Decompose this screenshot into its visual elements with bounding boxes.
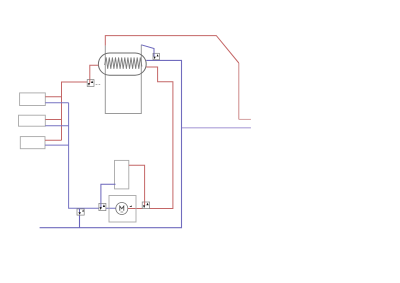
wire: radiator 1 red stub [45,96,61,98]
wire: radiator 2 blue stub [45,125,68,127]
valve V5 (boiler supply valve) [142,202,149,209]
wire: radiator 3 red stub [45,139,62,141]
valve V2 (tank DHW valve) [153,53,159,59]
tiny label dashes next to V1 [96,84,101,86]
wire: red stub at expansion [239,118,251,120]
wire: blue line from expansion area, horizontal y=127.8 [182,127,251,129]
wire: red coil supply left side of tank [90,65,99,79]
radiator 1 [20,93,46,106]
valve V4 (boiler return valve) [99,203,106,210]
boiler B1 [115,160,129,189]
buffer tank under-rectangle (open top) [105,45,141,114]
wire: radiator 2 red stub [45,119,61,121]
wire: blue stub from bottom line up through valve V3 [79,215,81,228]
wire: radiator 1 blue stub [45,102,68,104]
wire: red boiler supply [129,165,145,202]
pump box [109,196,136,223]
valve V3 (hanging on return) [77,209,84,215]
wire: blue radiator return drop [69,103,116,209]
wire: red radiator supply header [62,82,88,140]
pump outlet arrow [129,205,131,207]
wire: radiator 3 blue stub [45,144,69,146]
valve V1 (radiator supply valve) [87,80,94,87]
tank T1 stadium body [98,53,146,75]
wire: red flow top from tank to expansion, horizontal [105,36,239,63]
radiator 2 [19,115,46,126]
pump circle M [116,203,128,215]
wire: red drop to expansion [238,63,240,119]
coil heat exchanger zigzag [105,57,142,68]
wire: blue DHW from tank valve to right drop [141,45,154,54]
radiator 3 [20,137,45,149]
wire: blue boiler return branch [101,184,116,203]
wire: red coil return right side of tank down to pump line [127,67,173,209]
wire: blue horizontal under tank valve [40,60,182,227]
